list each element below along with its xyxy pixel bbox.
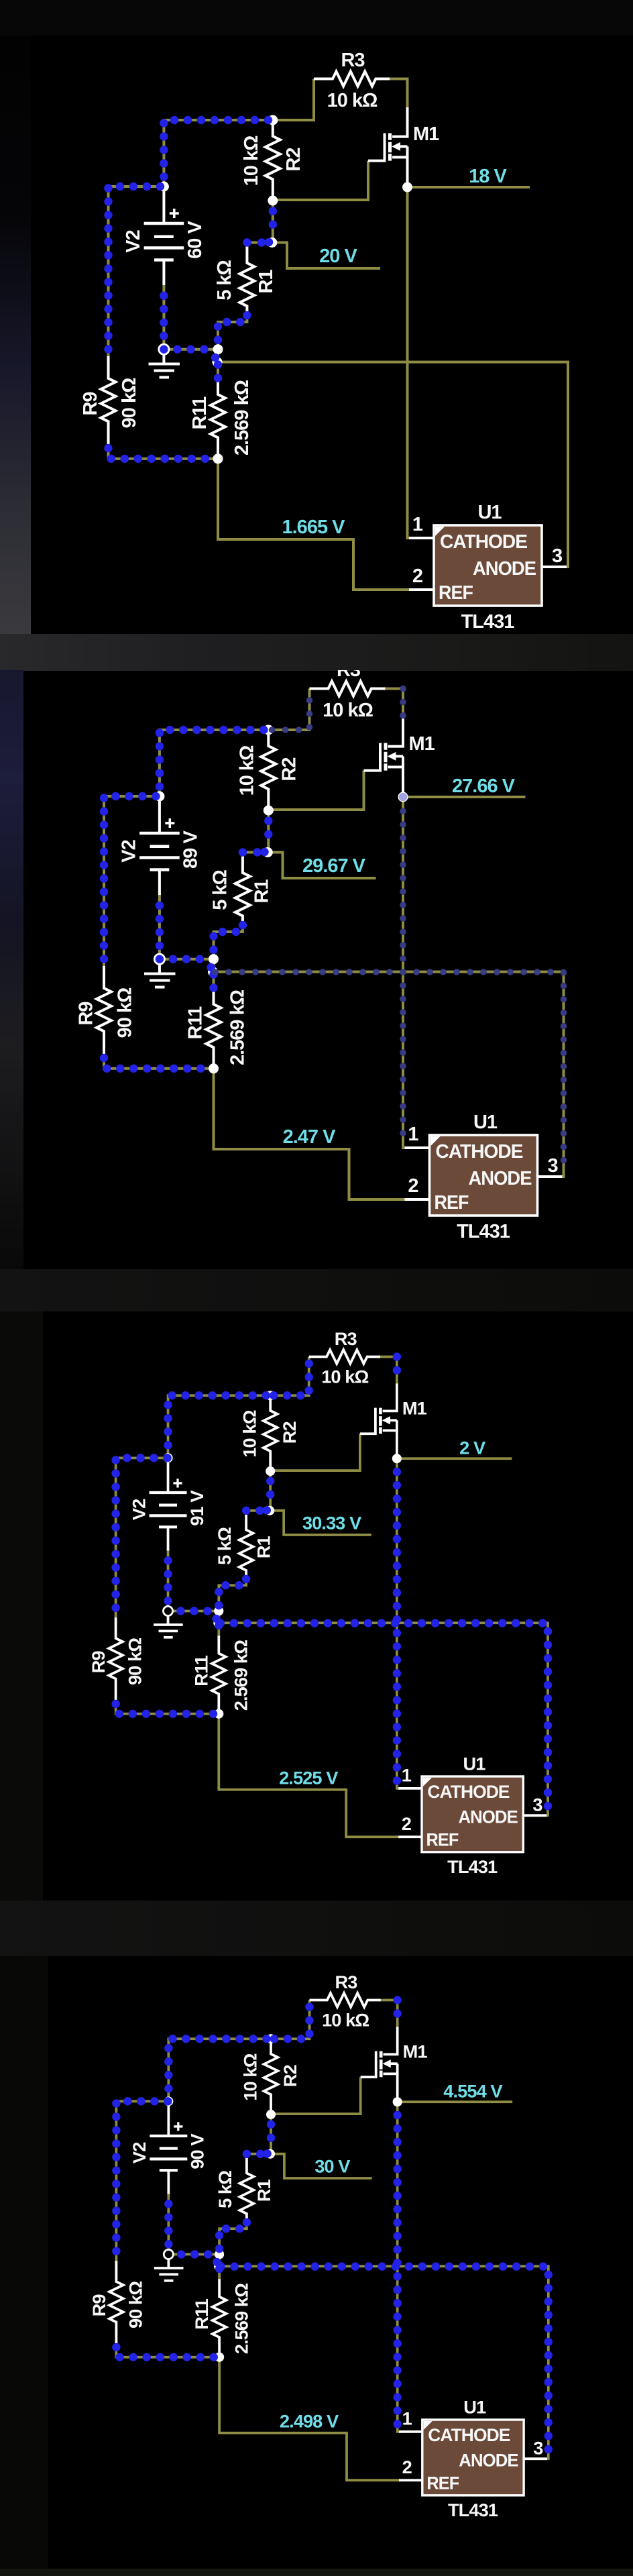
circuit panel 1 — [80, 50, 568, 633]
svg-text:2 V: 2 V — [459, 1438, 485, 1458]
svg-text:90 V: 90 V — [187, 2134, 208, 2169]
svg-text:91 V: 91 V — [186, 1491, 207, 1526]
left margin column P4 — [0, 1956, 48, 2569]
gap strip 2 — [0, 1269, 633, 1311]
svg-text:4.554 V: 4.554 V — [443, 2081, 502, 2102]
gap strip 3 — [0, 1900, 633, 1956]
svg-text:60 V: 60 V — [184, 221, 206, 259]
current dots extended dim — [215, 689, 564, 1174]
current dots extended bright — [221, 2000, 548, 2455]
gap strip 1 — [0, 634, 633, 671]
current dots main loop — [104, 730, 268, 1069]
current dots main loop — [109, 120, 273, 459]
current dots main loop — [116, 2039, 271, 2357]
current dots main loop — [116, 1395, 271, 1714]
svg-text:2.498 V: 2.498 V — [280, 2410, 339, 2431]
svg-text:29.67 V: 29.67 V — [302, 855, 366, 877]
svg-text:27.66 V: 27.66 V — [452, 775, 516, 797]
left margin column P1 — [0, 36, 31, 634]
circuit panel 4 — [89, 1972, 549, 2520]
top margin strip — [0, 0, 633, 36]
svg-text:1.665 V: 1.665 V — [282, 517, 346, 538]
dim dot on source node — [399, 793, 407, 801]
current dots extended bright — [221, 1356, 548, 1812]
svg-text:2.47 V: 2.47 V — [283, 1126, 336, 1148]
bottom strip — [0, 2569, 633, 2576]
svg-text:30.33 V: 30.33 V — [302, 1513, 361, 1534]
svg-text:89 V: 89 V — [180, 830, 202, 869]
svg-text:20 V: 20 V — [319, 246, 357, 267]
svg-text:30 V: 30 V — [314, 2156, 350, 2177]
left margin column P3 — [0, 1311, 43, 1900]
svg-text:2.525 V: 2.525 V — [279, 1767, 338, 1788]
svg-text:18 V: 18 V — [469, 166, 507, 187]
circuit panel 2 — [76, 659, 564, 1242]
left margin column P2 — [0, 670, 23, 1269]
circuit panel 3 — [88, 1328, 548, 1877]
